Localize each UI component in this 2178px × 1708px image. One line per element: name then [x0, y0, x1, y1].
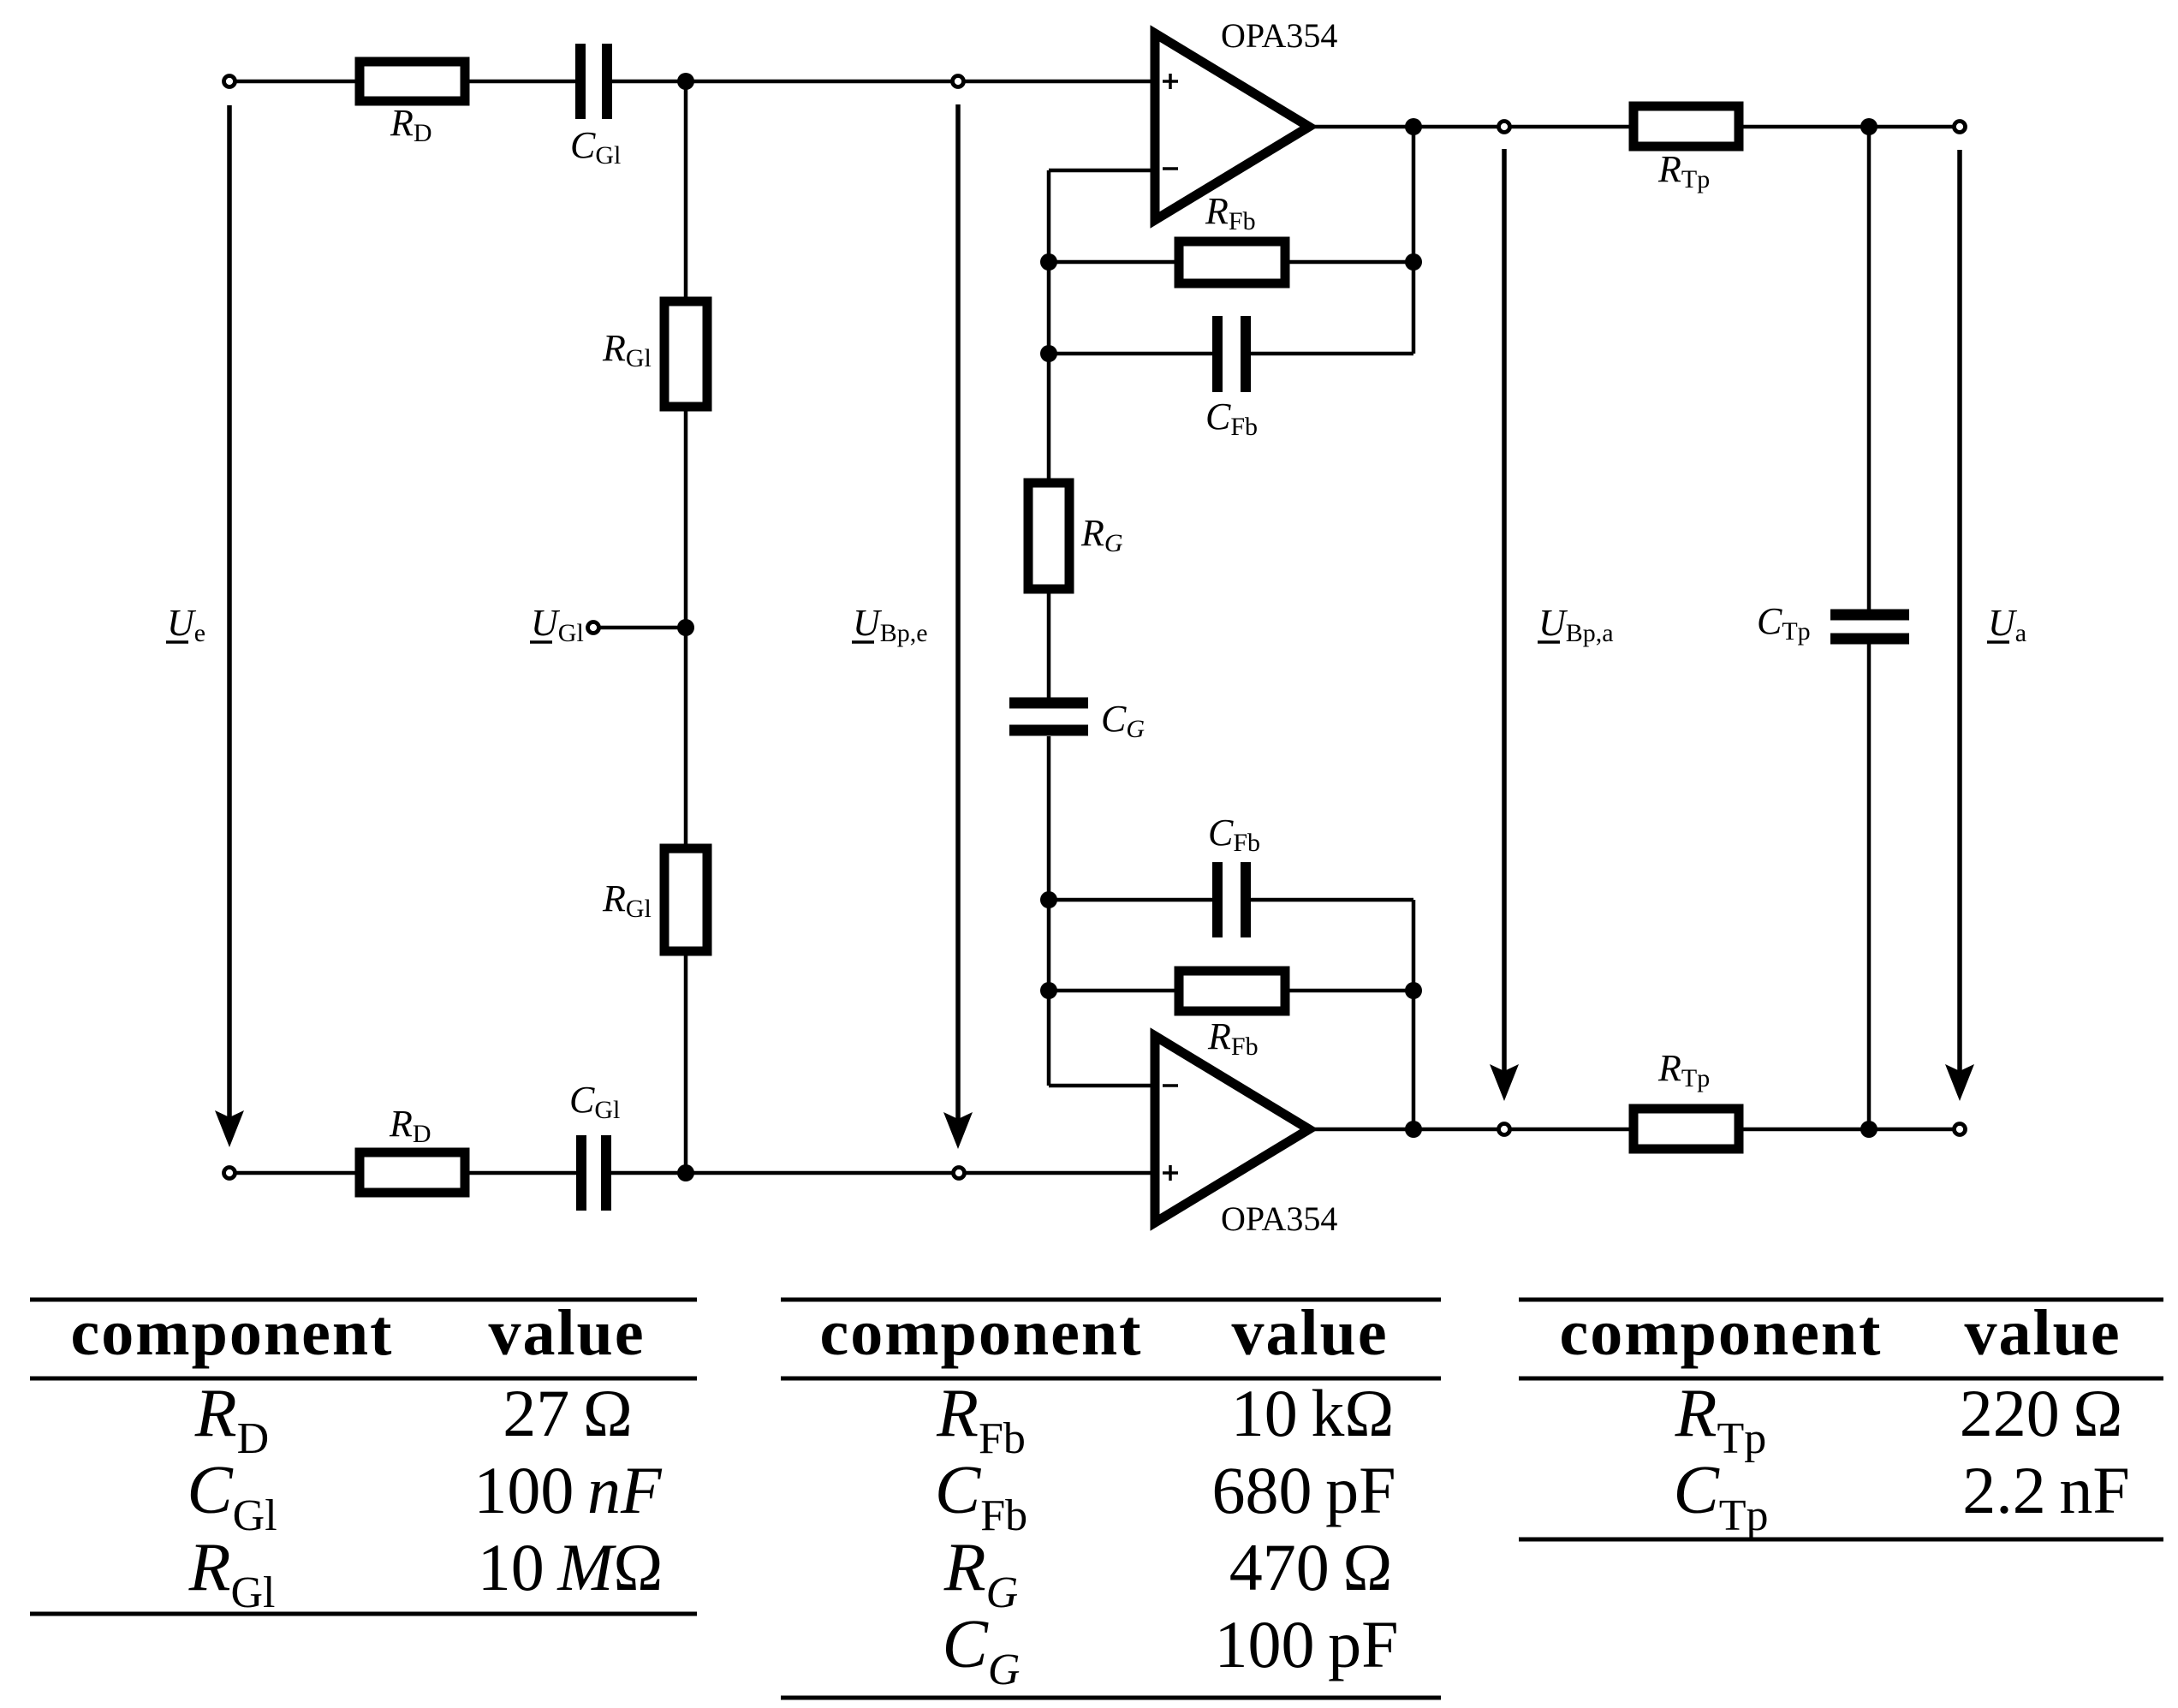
- label R_Fb (top): [1205, 190, 1256, 235]
- svg-text:Ue: Ue: [167, 602, 205, 647]
- svg-text:CTp: CTp: [1757, 600, 1811, 646]
- svg-text:RFb: RFb: [1207, 1015, 1259, 1061]
- svg-text:component: component: [1560, 1297, 1883, 1369]
- label R_Fb (bottom): [1207, 1015, 1259, 1061]
- svg-text:10 MΩ: 10 MΩ: [478, 1530, 664, 1604]
- table 2 row C_Fb: [935, 1453, 1396, 1540]
- junction: R_Fb bottom-right: [1405, 982, 1422, 999]
- svg-text:UGl: UGl: [531, 602, 584, 647]
- wire: C_Fb (top) branch left: [1049, 352, 1217, 356]
- svg-text:RFb: RFb: [936, 1376, 1026, 1463]
- svg-text:RFb: RFb: [1205, 190, 1256, 235]
- svg-text:value: value: [1231, 1297, 1388, 1369]
- junction: top node at R_Gl column: [677, 73, 694, 90]
- resistor R_G: [1028, 483, 1069, 589]
- junction: bottom node at R_Gl column: [677, 1164, 694, 1181]
- capacitor C_Gl (bottom): [581, 1135, 606, 1211]
- resistor R_D (bottom): [360, 1152, 465, 1193]
- table 2 header: [820, 1297, 1389, 1369]
- junction: C_Tp bottom: [1860, 1121, 1877, 1138]
- label C_Gl (top): [570, 124, 621, 170]
- capacitor C_G: [1009, 703, 1088, 730]
- voltage arrow U_a: [1945, 150, 1974, 1101]
- op-amp U1 OPA354 (top): [1155, 33, 1309, 220]
- svg-text:RGl: RGl: [602, 327, 652, 372]
- terminal: U_Bp,e bottom: [954, 1168, 965, 1179]
- junction: U_Gl node on bus: [677, 619, 694, 636]
- wire: top op-amp inverting input stub: [1049, 169, 1155, 173]
- svg-text:RD: RD: [389, 1103, 431, 1148]
- table 1 row C_Gl: [187, 1453, 663, 1540]
- label C_Gl (bottom): [569, 1079, 620, 1124]
- table 2 row R_G: [943, 1530, 1393, 1617]
- label U_Bp,e: [852, 602, 928, 647]
- terminal: bottom-left input: [224, 1168, 235, 1179]
- voltage arrow U_Bp,a: [1490, 149, 1519, 1101]
- svg-text:RGl: RGl: [602, 878, 652, 923]
- terminal: U_Bp,e top: [953, 76, 964, 87]
- junction: C_Tp top: [1860, 118, 1877, 135]
- label R_Gl (bottom): [602, 878, 652, 923]
- svg-text:RG: RG: [1080, 512, 1123, 557]
- wire: top input, C_Gl to op-amp + input: [607, 80, 1155, 84]
- wire: top input, terminal to C_Gl left plate: [235, 80, 580, 84]
- junction: R_Fb bottom-left: [1040, 982, 1057, 999]
- wire: bottom input, C_Gl to op-amp + input: [606, 1171, 1155, 1175]
- resistor R_Tp (top): [1633, 106, 1739, 146]
- svg-text:Ua: Ua: [1988, 602, 2026, 647]
- svg-text:CG: CG: [943, 1607, 1021, 1694]
- svg-text:component: component: [820, 1297, 1143, 1369]
- resistor R_Gl (top): [664, 301, 707, 407]
- table 3 header: [1560, 1297, 2121, 1369]
- wire: top op-amp output: [1309, 125, 1960, 129]
- terminal: U_Bp,a bottom: [1499, 1124, 1510, 1135]
- label R_Tp (top): [1657, 148, 1710, 193]
- svg-text:CTp: CTp: [1673, 1453, 1768, 1540]
- wire: C_Fb (bottom) branch right: [1246, 898, 1413, 902]
- svg-text:2.2 nF: 2.2 nF: [1962, 1453, 2130, 1527]
- table 2 row R_Fb: [936, 1376, 1394, 1463]
- resistor R_Fb (bottom): [1179, 971, 1285, 1011]
- junction: R_Fb top-left: [1040, 253, 1057, 271]
- svg-text:10 kΩ: 10 kΩ: [1231, 1376, 1395, 1450]
- svg-text:27 Ω: 27 Ω: [503, 1376, 633, 1450]
- table 3 row C_Tp: [1673, 1453, 2129, 1540]
- label R_Gl (top): [602, 327, 652, 372]
- op-amp U2 OPA354 (bottom): [1155, 1036, 1309, 1223]
- table 2 rules: [781, 1300, 1441, 1698]
- svg-text:RD: RD: [194, 1376, 269, 1463]
- label R_Tp (bottom): [1657, 1047, 1710, 1092]
- label C_Tp: [1757, 600, 1811, 646]
- svg-text:RG: RG: [943, 1530, 1018, 1617]
- label OPA354 (top): [1221, 16, 1337, 55]
- svg-text:CFb: CFb: [935, 1453, 1027, 1540]
- wire: bottom input, terminal to C_Gl left plate: [235, 1171, 581, 1175]
- wire: C_Fb (bottom) branch left: [1049, 898, 1217, 902]
- junction: R_Fb top-right: [1405, 253, 1422, 271]
- wire: bottom op-amp inverting input stub: [1049, 1084, 1155, 1088]
- wire: C_Tp branch lower: [1867, 644, 1872, 1129]
- svg-text:UBp,a: UBp,a: [1538, 602, 1614, 647]
- terminal: output bottom: [1955, 1124, 1966, 1135]
- svg-text:value: value: [1964, 1297, 2121, 1369]
- svg-text:CGl: CGl: [187, 1453, 277, 1540]
- resistor R_Tp (bottom): [1633, 1109, 1739, 1149]
- svg-text:100 pF: 100 pF: [1215, 1607, 1399, 1681]
- svg-text:UBp,e: UBp,e: [853, 602, 928, 647]
- table 2 row C_G: [943, 1607, 1399, 1694]
- resistor R_D (top): [360, 62, 465, 101]
- svg-text:OPA354: OPA354: [1221, 16, 1337, 55]
- wire: bottom op-amp output: [1309, 1128, 1960, 1132]
- svg-text:RTp: RTp: [1657, 1047, 1710, 1092]
- wire: C_Tp branch upper: [1867, 127, 1872, 610]
- svg-text:100 nF: 100 nF: [473, 1453, 663, 1527]
- terminal: output top: [1955, 122, 1966, 133]
- wire: top feedback right vertical: [1412, 127, 1416, 354]
- label U_Gl: [530, 602, 584, 647]
- svg-text:value: value: [488, 1297, 645, 1369]
- svg-text:CFb: CFb: [1208, 812, 1260, 857]
- svg-text:component: component: [71, 1297, 394, 1369]
- label U_Bp,a: [1538, 602, 1614, 647]
- wire: lower feedback right vertical: [1412, 900, 1416, 1129]
- capacitor C_Fb (top): [1217, 316, 1246, 392]
- capacitor C_Tp: [1830, 615, 1909, 639]
- label C_Fb (bottom): [1208, 812, 1260, 857]
- label C_G: [1101, 698, 1145, 743]
- svg-text:CG: CG: [1101, 698, 1145, 743]
- label R_D (top): [390, 102, 432, 147]
- wire: R_Fb (top) branch: [1049, 260, 1413, 265]
- wire: R_Fb (bottom) branch: [1049, 989, 1413, 993]
- svg-text:CFb: CFb: [1205, 396, 1258, 441]
- table 3 rules: [1519, 1300, 2163, 1539]
- wire: C_Fb (top) branch right: [1246, 352, 1413, 356]
- junction: C_Fb top-left: [1040, 345, 1057, 362]
- voltage arrow U_Bp,e: [943, 104, 973, 1149]
- table 3 row R_Tp: [1675, 1376, 2123, 1463]
- svg-text:680 pF: 680 pF: [1212, 1453, 1396, 1527]
- svg-text:CGl: CGl: [570, 124, 621, 170]
- capacitor C_Fb (bottom): [1217, 862, 1246, 937]
- svg-text:RTp: RTp: [1675, 1376, 1767, 1463]
- label U_a: [1987, 602, 2026, 647]
- label R_G: [1080, 512, 1123, 557]
- terminal: U_Gl node: [588, 622, 599, 634]
- voltage arrow U_e: [215, 105, 244, 1147]
- table 1 row R_D: [194, 1376, 633, 1463]
- label C_Fb (top): [1205, 396, 1258, 441]
- wire: top feedback left vertical: [1047, 170, 1051, 698]
- svg-text:RTp: RTp: [1657, 148, 1710, 193]
- svg-text:CGl: CGl: [569, 1079, 620, 1124]
- terminal: top-left input: [224, 76, 235, 87]
- wire: lower feedback left vertical: [1047, 736, 1051, 1086]
- resistor R_Gl (bottom): [664, 848, 707, 951]
- svg-text:220 Ω: 220 Ω: [1960, 1376, 2123, 1450]
- label OPA354 (bottom): [1221, 1199, 1337, 1238]
- junction: top output node: [1405, 118, 1422, 135]
- svg-text:RD: RD: [390, 102, 432, 147]
- svg-text:OPA354: OPA354: [1221, 1199, 1337, 1238]
- junction: C_Fb bottom-left: [1040, 891, 1057, 908]
- wire: U_Gl stub: [598, 626, 686, 630]
- wire: main vertical bus x=801: [684, 81, 688, 1173]
- svg-text:RGl: RGl: [188, 1530, 276, 1617]
- svg-text:470 Ω: 470 Ω: [1229, 1530, 1393, 1604]
- label U_e: [166, 602, 205, 647]
- label R_D (bottom): [389, 1103, 431, 1148]
- resistor R_Fb (top): [1179, 241, 1285, 283]
- capacitor C_Gl (top): [580, 44, 607, 119]
- junction: bottom output node: [1405, 1121, 1422, 1138]
- terminal: U_Bp,a top: [1499, 122, 1510, 133]
- table 1 row R_Gl: [188, 1530, 664, 1617]
- table 1 header: [71, 1297, 646, 1369]
- table 1 rules: [30, 1300, 697, 1614]
